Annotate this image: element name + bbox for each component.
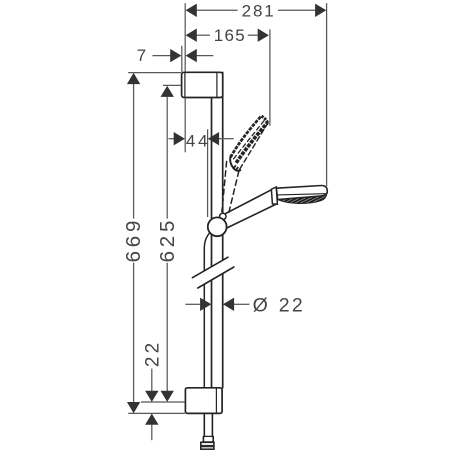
arrowhead dim dia22 left (200, 298, 211, 311)
phantom dashed line right (229, 171, 239, 213)
svg-text:669: 669 (122, 217, 145, 263)
arrowhead dim 22 top (145, 391, 158, 402)
dim dia22 (185, 303, 200, 305)
arrowhead dim 44 left (174, 132, 185, 145)
phantom head tip band (261, 116, 267, 122)
extension line mount top (163, 84, 181, 86)
extension line phantom head tip (269, 30, 271, 126)
holder ball (208, 217, 227, 236)
svg-text:22: 22 (143, 340, 164, 368)
svg-text:281: 281 (242, 1, 276, 20)
svg-text:625: 625 (156, 217, 179, 263)
dim 7 (153, 55, 171, 57)
hose end fitting (202, 436, 204, 442)
arrowhead dim 625 bottom (161, 391, 174, 402)
arrowhead dim 165 right (258, 29, 269, 42)
dim 44 (169, 138, 175, 140)
dim 22 (151, 369, 153, 391)
extension line bar top (128, 72, 181, 74)
arrowhead dim 625 top (161, 86, 174, 97)
holder pivot nub (220, 213, 226, 219)
hand shower collar (271, 187, 277, 204)
extension line mount bottom (141, 401, 185, 403)
phantom head spray band A (231, 116, 262, 157)
arrowhead dim 44 right (208, 132, 219, 145)
dim 281 (197, 9, 238, 11)
phantom head back dashed edge (240, 122, 269, 169)
arrowhead dim 22 bottom (145, 414, 158, 425)
arrowhead dim 281 left (186, 4, 197, 17)
phantom joint (230, 156, 240, 171)
svg-text:Ø22: Ø22 (253, 295, 305, 317)
bottom mounting bracket (185, 388, 222, 414)
hand shower head (276, 185, 327, 199)
extension line bracket edge (181, 46, 183, 72)
dim 625 (166, 97, 168, 219)
dim 165 (197, 34, 211, 36)
arrowhead dim 7 left (170, 49, 181, 62)
extension line wall reference upper (184, 3, 186, 72)
extension line holder axis (207, 129, 209, 217)
arrowhead dim 7 right (186, 49, 197, 62)
svg-text:165: 165 (214, 26, 246, 45)
arrowhead dim 165 left (186, 29, 197, 42)
hose below bracket (203, 413, 205, 436)
arrowhead dim 669 bottom (127, 402, 140, 413)
top mounting bracket (182, 72, 223, 97)
extension line shower head right (326, 3, 328, 186)
hand shower handle (223, 189, 278, 229)
spray face (278, 195, 327, 203)
phantom head mid dashed edge (234, 119, 266, 159)
extension line wall reference lower (184, 98, 186, 152)
shower hose upper run (204, 232, 210, 387)
svg-text:7: 7 (137, 46, 146, 65)
arrowhead dim 281 right (315, 4, 326, 17)
wall bar tube (211, 98, 213, 388)
svg-text:44: 44 (186, 131, 211, 150)
dim 669 (133, 84, 135, 219)
arrowhead dim 669 top (127, 73, 140, 84)
phantom dashed line left (222, 162, 227, 212)
pipe break symbol (192, 257, 234, 288)
arrowhead dim dia22 right (223, 298, 234, 311)
phantom head spray band B (236, 123, 267, 163)
extension line bar bottom (128, 412, 185, 414)
